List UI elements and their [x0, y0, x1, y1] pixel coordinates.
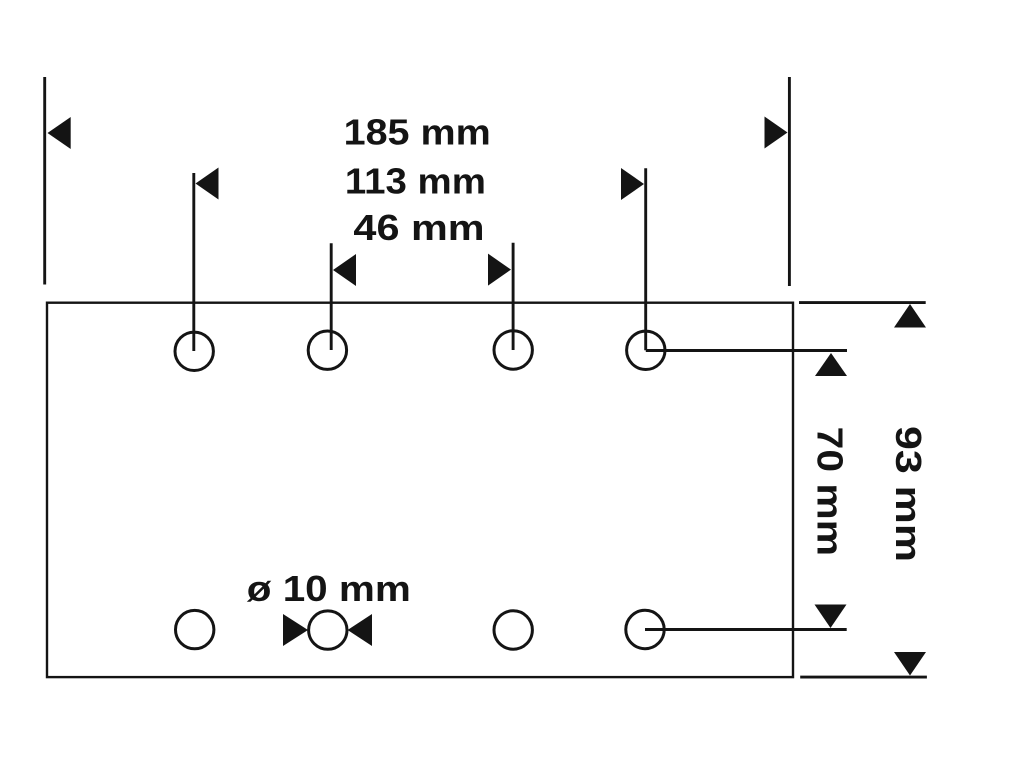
- svg-text:93 mm: 93 mm: [888, 426, 929, 562]
- svg-text:113 mm: 113 mm: [345, 160, 486, 201]
- svg-text:70 mm: 70 mm: [810, 427, 851, 556]
- svg-text:46 mm: 46 mm: [353, 207, 484, 248]
- svg-text:ø 10 mm: ø 10 mm: [247, 568, 411, 609]
- svg-text:185 mm: 185 mm: [344, 112, 491, 153]
